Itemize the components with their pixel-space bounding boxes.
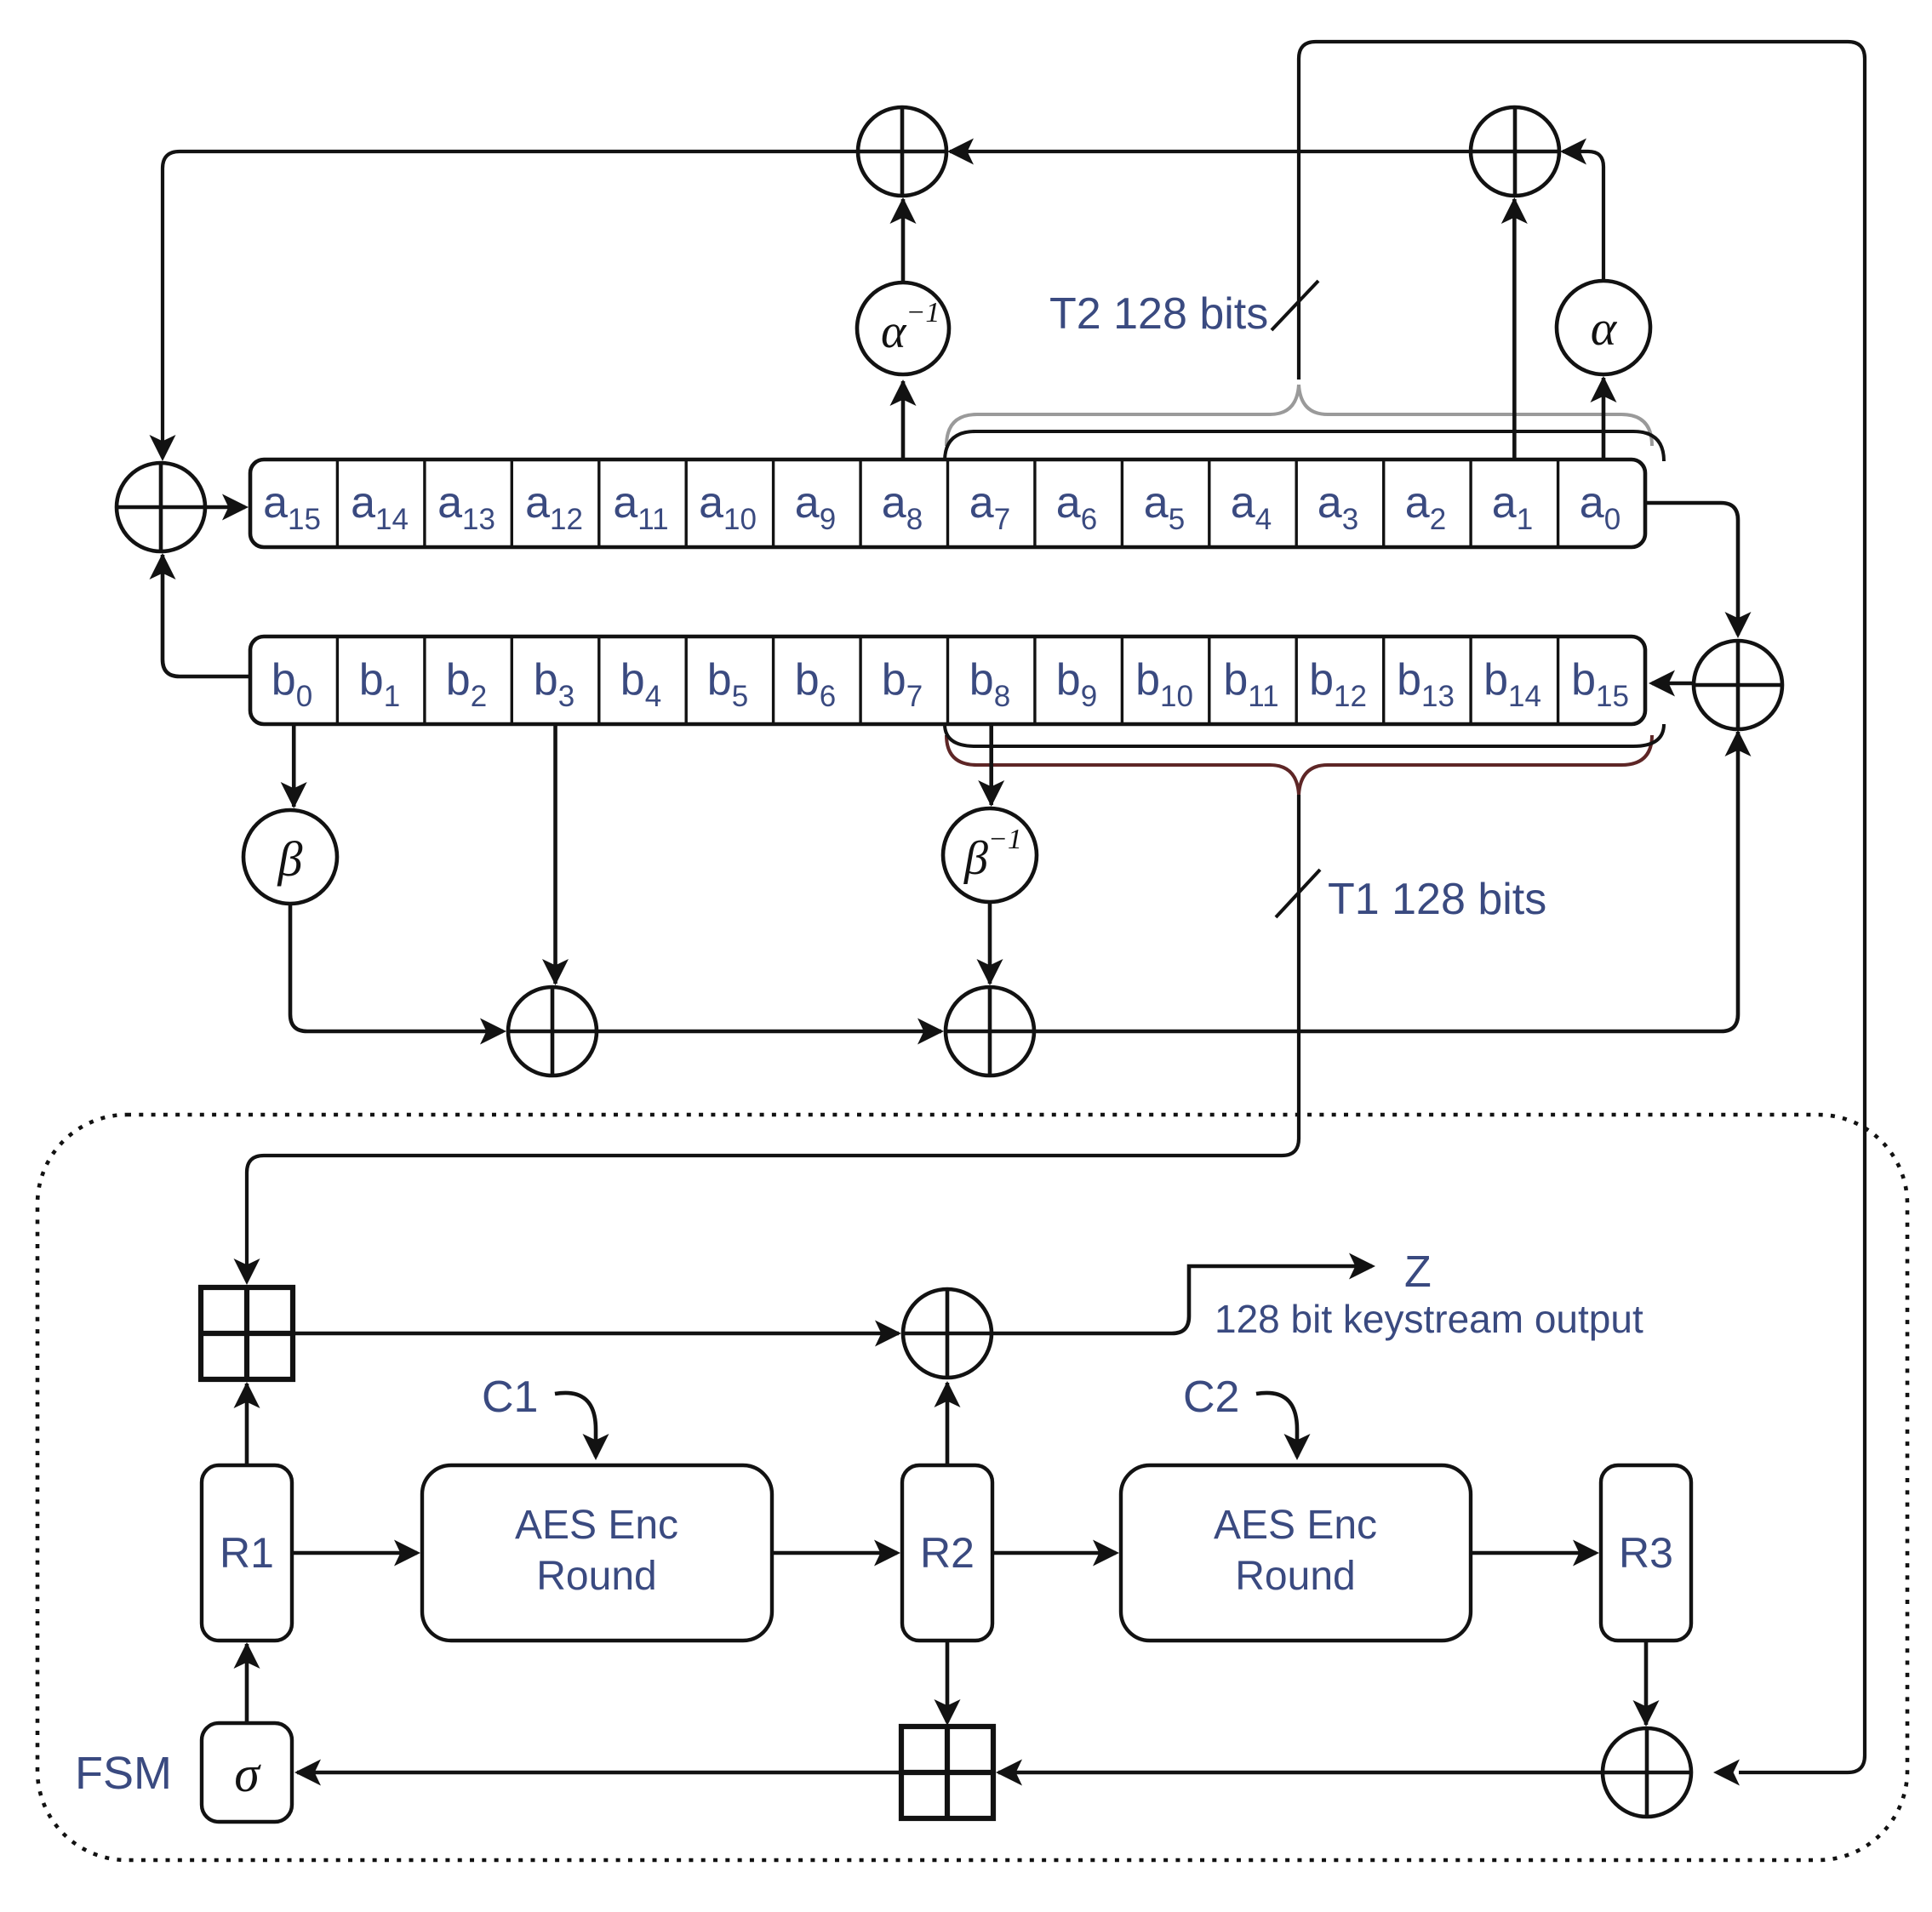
wire from R2 to AES Enc Round 2 [992,1540,1119,1567]
XOR gate lower-left (b3 tap) [508,987,597,1076]
label FSM [75,1748,172,1799]
XOR gate top-left [858,107,946,196]
wire from cell b0 down into beta circle [281,724,307,808]
black rounded bracket under cells b8..b15 [945,724,1664,746]
svg-text:R2: R2 [920,1529,975,1577]
wire from LFSR-A input XOR into cell a15 [205,494,249,521]
AES Enc Round block 2 [1121,1465,1471,1641]
svg-text:FSM: FSM [75,1748,172,1799]
multiplier circle alpha-inverse [857,283,949,374]
wire from cell a8 up into alpha-inverse circle [890,380,917,459]
wire from cell b0 left edge up into LFSR-A input XOR [150,553,251,676]
XOR gate bottom-right [1603,1728,1691,1817]
svg-text:R1: R1 [220,1529,274,1577]
svg-text:R3: R3 [1619,1529,1673,1577]
wire from top-left XOR output left and down into LFSR-A input XOR [150,151,860,461]
svg-text:Z: Z [1404,1247,1432,1297]
gray curly brace over cells a7..a0 (T2 tap) [946,385,1652,446]
wire from beta circle down and right into lower-left XOR [290,904,506,1045]
wire T2 feedback loop (top), from T2 brace up across top and down right side into bottom-right XOR [1299,42,1865,1786]
black rounded bracket over cells a7..a0 [945,431,1664,461]
wire from sigma up into R1 [234,1642,260,1723]
wire from cell b8 down into beta-inverse circle [978,724,1004,807]
register R2 [902,1465,992,1641]
slash mark on T1 bus [1276,870,1320,917]
label 128 bit keystream output [1215,1297,1643,1341]
wire from cell a0 up into alpha circle [1591,376,1617,459]
maroon curly brace under cells b8..b15 (T1 tap) [946,735,1652,795]
XOR gate lower-middle (b8 tap) [946,987,1034,1076]
multiplier circle beta [243,810,337,904]
LFSR-A register row (cells a15..a0) [250,459,1645,547]
sigma permutation box [202,1723,292,1822]
wire from cell b3 down into lower-left XOR [542,724,569,985]
wire from cell a0 right edge down into LFSR-B input XOR [1645,503,1752,638]
svg-text:α: α [1591,300,1618,356]
label C2 and arrow into AES Enc Round 2 [1183,1373,1311,1460]
wire from R2 up into keystream XOR [935,1381,961,1465]
svg-text:AES Enc: AES Enc [515,1503,678,1548]
register R1 [202,1465,292,1641]
LFSR-B register row (cells b0..b15) [250,636,1645,724]
register R3 [1601,1465,1691,1641]
XOR gate at LFSR-A input (left) [117,463,205,551]
svg-text:T2 128 bits: T2 128 bits [1049,289,1268,339]
svg-text:128 bit keystream output: 128 bit keystream output [1215,1297,1643,1341]
multiplier circle beta-inverse [943,808,1037,902]
wire from lower-left XOR to lower-middle XOR [596,1019,944,1045]
label C1 and arrow into AES Enc Round 1 [482,1373,609,1460]
wire from top-right XOR to top-left XOR [947,139,1472,165]
svg-text:AES Enc: AES Enc [1214,1503,1377,1548]
svg-text:Round: Round [536,1554,656,1599]
wire from R1 up into boxplus adder [234,1382,260,1465]
wire from AES Enc Round 2 to R3 [1471,1540,1599,1567]
boxplus modular adder 1 [201,1287,293,1379]
svg-text:C1: C1 [482,1373,538,1422]
FSM dotted boundary box [37,1115,1907,1860]
XOR gate keystream output [903,1289,992,1378]
wire from boxplus adder 2 to sigma [294,1760,901,1786]
svg-text:σ: σ [234,1746,261,1802]
wire from alpha-inverse circle up into top-left XOR [890,197,917,283]
label T1 128 bits [1328,875,1546,924]
slash mark on T2 bus [1272,281,1318,330]
wire from bottom-right XOR to boxplus adder 2 [996,1760,1603,1786]
multiplier circle alpha [1557,281,1650,374]
AES Enc Round block 1 [422,1465,772,1641]
wire from R3 down into bottom-right XOR [1633,1641,1660,1727]
wire from lower-middle XOR right and up into LFSR-B input XOR [1033,730,1752,1031]
svg-text:β: β [277,831,303,887]
svg-text:Round: Round [1235,1554,1355,1599]
wire from cell a1 up into top-right XOR [1501,197,1528,459]
label Z [1404,1247,1432,1297]
wire from alpha circle up into top-right XOR [1560,139,1603,283]
wire from R1 to AES Enc Round 1 [292,1540,420,1567]
wire from AES Enc Round 1 to R2 [772,1540,900,1567]
wire from boxplus adder to keystream XOR [293,1321,901,1347]
wire from beta-inverse circle down into lower-middle XOR [977,902,1003,985]
boxplus modular adder 2 [901,1727,993,1818]
wire T1 bus from brace down, left along FSM top, down into boxplus adder [234,795,1300,1285]
XOR gate at LFSR-B input (right) [1694,641,1782,729]
wire from LFSR-B input XOR into cell b15 [1649,671,1694,697]
XOR gate top-right [1471,107,1559,196]
wire from R2 down into boxplus adder 2 [935,1641,961,1726]
svg-text:T1 128 bits: T1 128 bits [1328,875,1546,924]
label T2 128 bits [1049,289,1268,339]
wire keystream Z output from XOR right, up and right to Z [992,1253,1375,1334]
svg-text:C2: C2 [1183,1373,1239,1422]
